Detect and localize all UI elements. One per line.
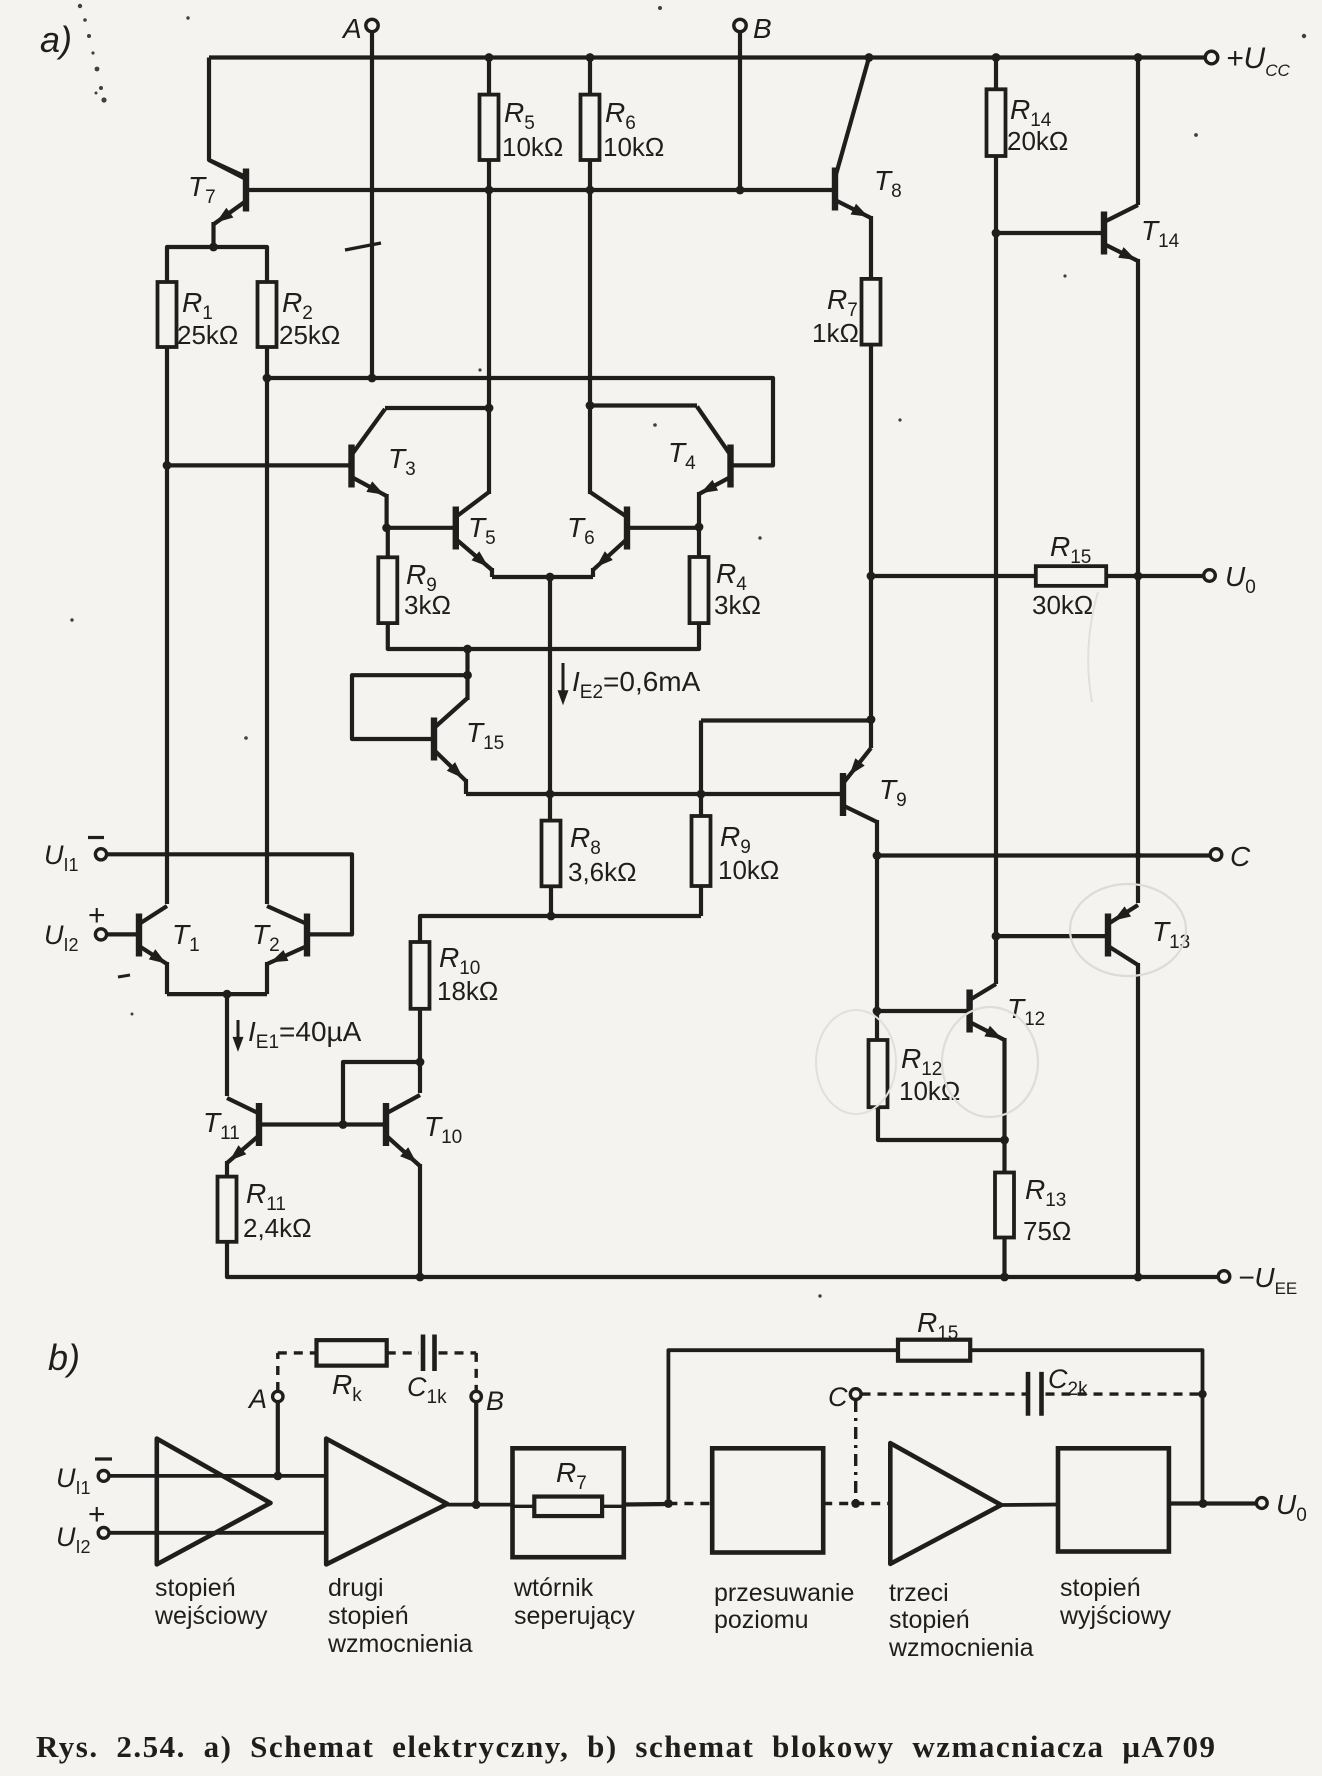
b dash-dot C down bbox=[854, 1400, 857, 1504]
wire node B vertical bbox=[738, 32, 742, 190]
b dashed to Rk bbox=[278, 1351, 317, 1354]
junction T3 collector bbox=[485, 404, 494, 413]
b terminal UI2 bbox=[98, 1527, 109, 1538]
transistor T1 bbox=[139, 906, 167, 964]
resistor R7 bbox=[862, 279, 881, 345]
svg-text:A: A bbox=[247, 1384, 267, 1414]
wire T14 collector up bbox=[1136, 58, 1140, 206]
wire T5 base bbox=[387, 526, 456, 530]
svg-text:B: B bbox=[753, 13, 772, 44]
svg-text:C: C bbox=[828, 1382, 848, 1412]
junction IE1 bbox=[223, 990, 232, 999]
wire T7 emitter down bbox=[211, 222, 215, 247]
resistor R11 bbox=[218, 1177, 237, 1242]
terminal UI1 bbox=[95, 849, 106, 860]
svg-text:wyjściowy: wyjściowy bbox=[1059, 1602, 1172, 1630]
wire T3 emitter down bbox=[385, 494, 389, 528]
svg-text:3kΩ: 3kΩ bbox=[714, 590, 761, 620]
wire T7 base to T8 base bbox=[246, 188, 835, 192]
svg-text:3kΩ: 3kΩ bbox=[404, 590, 451, 620]
terminal C bbox=[1210, 849, 1222, 861]
junction T4 collector bbox=[586, 401, 595, 410]
junction T9 emitter tee bbox=[867, 715, 876, 724]
wire R9b bottom lead bbox=[699, 886, 703, 916]
resistor R4 bbox=[690, 557, 709, 623]
svg-text:1kΩ: 1kΩ bbox=[812, 318, 859, 348]
b junction feedback left bbox=[664, 1499, 673, 1508]
b dashed C2k to right bbox=[1046, 1392, 1203, 1395]
wire R7 bottom column bbox=[869, 345, 873, 748]
junction R8 bottom bus bbox=[547, 912, 556, 921]
wire R13 bottom lead bbox=[1002, 1238, 1006, 1278]
resistor R8 bbox=[542, 821, 561, 887]
b wire amp2 to R7 block bbox=[447, 1503, 512, 1507]
b wire UI2 into amp1 bbox=[109, 1531, 326, 1535]
wire T3 base bbox=[167, 463, 352, 467]
b capacitor C1k bbox=[421, 1335, 426, 1372]
junction T3 base bbox=[163, 461, 172, 470]
b dashed A up bbox=[276, 1353, 279, 1391]
svg-text:stopień: stopień bbox=[1060, 1574, 1141, 1602]
junction R9b bbox=[697, 790, 706, 799]
wire -UEE bottom rail bbox=[227, 1242, 1218, 1277]
transistor T5 bbox=[456, 492, 492, 570]
b terminal U0 bbox=[1256, 1498, 1267, 1509]
b junction A bbox=[273, 1472, 282, 1481]
b dashed down to B bbox=[475, 1353, 478, 1390]
wire T1-T2 common emitter bbox=[167, 992, 267, 996]
wire bottom bus to R10 bbox=[420, 916, 701, 942]
svg-text:stopień: stopień bbox=[328, 1602, 409, 1630]
b terminal B bbox=[471, 1391, 481, 1401]
svg-text:drugi: drugi bbox=[328, 1574, 384, 1602]
svg-text:10kΩ: 10kΩ bbox=[603, 132, 664, 162]
junction T14 base bbox=[992, 229, 1001, 238]
junction T15 base loop bbox=[463, 671, 472, 680]
svg-text:2,4kΩ: 2,4kΩ bbox=[243, 1213, 312, 1243]
wire R9b top column bbox=[699, 721, 703, 817]
junction R12 bottom bbox=[1000, 1136, 1009, 1145]
wire T7 collector to rail bbox=[209, 58, 246, 178]
svg-text:+: + bbox=[88, 899, 106, 932]
svg-text:25kΩ: 25kΩ bbox=[177, 320, 238, 350]
wire T14 base bbox=[996, 231, 1104, 235]
svg-text:trzeci: trzeci bbox=[889, 1579, 949, 1607]
junction T5 base / R9 bbox=[382, 523, 391, 532]
svg-text:25kΩ: 25kΩ bbox=[279, 320, 340, 350]
resistor R5 bbox=[480, 95, 499, 160]
wire R5 bottom column to T5 bbox=[487, 160, 491, 494]
resistor R6 bbox=[581, 95, 600, 160]
b amplifier stage 2 triangle bbox=[326, 1439, 447, 1565]
wire T8 emitter to R7 bbox=[869, 216, 873, 279]
b junction C2k right bbox=[1198, 1390, 1206, 1398]
terminal -UEE bbox=[1218, 1271, 1230, 1283]
junction R5 bbox=[485, 186, 494, 195]
transistor T11 bbox=[227, 1098, 259, 1163]
svg-text:poziomu: poziomu bbox=[714, 1606, 809, 1634]
wire T12 base bbox=[877, 1009, 970, 1013]
b junction output bbox=[1199, 1499, 1208, 1508]
junction rail R14 bbox=[992, 53, 1001, 62]
junction R2 / A wire bbox=[263, 374, 272, 383]
wire T13 base bbox=[996, 934, 1108, 938]
transistor T7 bbox=[209, 160, 246, 224]
junction rail R6 bbox=[586, 53, 595, 62]
b block przesuwanie poziomu bbox=[712, 1448, 823, 1552]
b wire feedback right down bbox=[970, 1350, 1202, 1503]
wire T5-T6 common emitter bbox=[492, 575, 593, 579]
svg-text:seperujący: seperujący bbox=[514, 1602, 635, 1630]
transistor T14 bbox=[1104, 205, 1138, 261]
b amplifier stage 3 triangle bbox=[890, 1443, 1001, 1564]
svg-text:przesuwanie: przesuwanie bbox=[714, 1579, 854, 1607]
b terminal C bbox=[850, 1389, 861, 1400]
junction A line end bbox=[368, 374, 377, 383]
junction IE2 bbox=[546, 573, 555, 582]
stray dash mark near A line bbox=[345, 243, 381, 250]
b junction C below bbox=[851, 1499, 860, 1508]
node R1-R2 tee bbox=[209, 243, 218, 252]
svg-text:10kΩ: 10kΩ bbox=[899, 1076, 960, 1106]
terminal A bbox=[366, 19, 378, 31]
b minus bar bbox=[95, 1457, 112, 1460]
wire R6 bottom column to T6 bbox=[588, 160, 592, 494]
svg-text:a): a) bbox=[40, 19, 72, 60]
transistor T9 bbox=[843, 748, 877, 822]
b dashed block1 to amp3 bbox=[823, 1502, 890, 1505]
wire T2 emitter down bbox=[265, 962, 269, 994]
wire R15 right to U0 bbox=[1106, 574, 1203, 578]
wire R12 bottom to T12 emitter bbox=[878, 1107, 1005, 1140]
b amplifier stage 1 triangle bbox=[157, 1439, 271, 1565]
junction T13 rail bbox=[1134, 1273, 1143, 1282]
junction T10 emitter rail bbox=[416, 1273, 425, 1282]
junction T12 base bbox=[873, 1007, 882, 1016]
b block stopien wyjsciowy bbox=[1058, 1448, 1169, 1551]
wire UI1 to T2 base bbox=[107, 854, 352, 934]
wire R6 top lead bbox=[588, 58, 592, 95]
b block wtornik R7 bbox=[513, 1448, 624, 1557]
wire T3 collector to R5 column bbox=[385, 406, 489, 410]
transistor T8 bbox=[835, 58, 871, 219]
b resistor R15 bbox=[898, 1340, 970, 1361]
label UI1 minus bar bbox=[88, 836, 104, 839]
wire UI2 to T1 base bbox=[107, 932, 139, 936]
junction T6 base / R4 bbox=[695, 523, 704, 532]
b wire feedback up left bbox=[668, 1350, 898, 1503]
wire R12 top lead bbox=[875, 1011, 879, 1040]
wire T15 emitter bus to T9 base bbox=[466, 792, 843, 796]
junction R15 left bbox=[867, 572, 876, 581]
wire R2 bottom column bbox=[265, 347, 269, 904]
stray minus mark bbox=[118, 975, 130, 977]
svg-text:Rys. 2.54. a) Schemat elektryc: Rys. 2.54. a) Schemat elektryczny, b) sc… bbox=[36, 1729, 1216, 1764]
b junction B wire bbox=[472, 1500, 481, 1509]
resistor R13 bbox=[995, 1173, 1014, 1238]
resistor R14 bbox=[987, 89, 1006, 156]
transistor T13 bbox=[1108, 905, 1138, 965]
svg-text:wtórnik: wtórnik bbox=[513, 1574, 594, 1602]
junction T10-T11 base hook bbox=[416, 1058, 425, 1067]
wire T4 collector to R6 column bbox=[590, 403, 697, 407]
wire R14 top lead bbox=[994, 58, 998, 90]
junction R15 right bbox=[1134, 572, 1143, 581]
wire node A vertical bbox=[370, 32, 374, 378]
transistor T4 bbox=[697, 407, 731, 495]
wire R5 top lead bbox=[487, 58, 491, 95]
terminal B bbox=[734, 19, 746, 31]
svg-text:A: A bbox=[341, 13, 362, 44]
b wire R7 in bbox=[513, 1505, 535, 1508]
resistor R12 bbox=[869, 1040, 888, 1107]
b dashed Rk to C1k bbox=[387, 1351, 419, 1354]
b dashed C1k to B bbox=[439, 1351, 477, 1354]
transistor T15 bbox=[434, 698, 468, 781]
arrow IE1 current bbox=[237, 1020, 240, 1042]
b wire A down bbox=[276, 1403, 280, 1476]
terminal +Ucc bbox=[1205, 51, 1218, 64]
wire C rail bbox=[877, 853, 1210, 857]
wire R8 bottom lead bbox=[549, 886, 553, 916]
wire +Ucc top rail bbox=[209, 55, 1205, 59]
wire T11-T10 bases bbox=[259, 1122, 386, 1126]
faint smudges bbox=[1070, 884, 1186, 976]
resistor R15 bbox=[1036, 566, 1106, 586]
wire T5 emitter down bbox=[490, 568, 494, 577]
wire T4 emitter to R4 bbox=[697, 492, 701, 557]
wire T14 emitter column down bbox=[1136, 259, 1140, 903]
svg-text:10kΩ: 10kΩ bbox=[502, 132, 563, 162]
junction R8 bbox=[546, 790, 555, 799]
junction C rail start bbox=[873, 851, 882, 860]
junction T13 base bbox=[992, 932, 1001, 941]
transistor T6 bbox=[590, 492, 627, 570]
svg-text:18kΩ: 18kΩ bbox=[437, 976, 498, 1006]
wire T10 emitter to rail bbox=[418, 1164, 422, 1277]
transistor T10 bbox=[386, 1095, 420, 1166]
resistor R9 10k bbox=[692, 816, 711, 886]
b dashed to block1 bbox=[668, 1502, 712, 1505]
junction R6 bbox=[586, 186, 595, 195]
wire second stage bus to T4 base bbox=[267, 378, 773, 465]
svg-text:stopień: stopień bbox=[889, 1606, 970, 1634]
wire T15 emitter down bbox=[464, 779, 468, 794]
b resistor Rk bbox=[317, 1340, 387, 1366]
svg-text:C: C bbox=[1230, 841, 1251, 872]
b capacitor C2k bbox=[1026, 1372, 1031, 1416]
resistor R9 3k bbox=[378, 557, 397, 623]
junction rail T14 collector bbox=[1134, 53, 1143, 62]
stray scan marks bbox=[78, 4, 82, 8]
wire T6 emitter down bbox=[591, 568, 595, 577]
wire T13 collector down bbox=[1136, 963, 1140, 1277]
junction T15 collector column bbox=[463, 645, 472, 654]
svg-text:wzmocnienia: wzmocnienia bbox=[327, 1630, 473, 1658]
transistor T12 bbox=[970, 984, 1005, 1040]
wire T15 collector column bbox=[465, 649, 469, 700]
junction C rail right column bbox=[1135, 852, 1142, 859]
wire base hook to R10 bbox=[343, 1062, 420, 1125]
wire R1-R2 top tee bbox=[167, 247, 267, 282]
junction rail T8 collector bbox=[865, 53, 874, 62]
wire R15 left bbox=[871, 574, 1036, 578]
wire T11 emitter to R11 bbox=[225, 1161, 229, 1177]
svg-text:20kΩ: 20kΩ bbox=[1007, 126, 1068, 156]
wire R1 bottom / T3 base column bbox=[165, 347, 169, 904]
wire tee to T9 emitter column bbox=[701, 718, 871, 722]
junction R13 rail bbox=[1000, 1273, 1009, 1282]
wire R14 bottom column to T13 base bbox=[994, 156, 998, 936]
wire IE1 vertical to T11 bbox=[225, 994, 229, 1096]
junction base hook bbox=[339, 1120, 348, 1129]
transistor T3 bbox=[352, 409, 387, 496]
b wire UI1 into amp1 bbox=[109, 1474, 326, 1478]
b terminal UI1 bbox=[98, 1471, 109, 1482]
wire R9a-R4 bottom bus bbox=[388, 623, 699, 649]
svg-text:75Ω: 75Ω bbox=[1023, 1216, 1071, 1246]
terminal UI2 bbox=[95, 929, 106, 940]
wire T12 emitter to R13 bbox=[1002, 1038, 1006, 1173]
wire R10 bottom column bbox=[418, 1009, 422, 1093]
resistor R1 bbox=[158, 282, 177, 347]
wire IE2 vertical to T15 emitter bus bbox=[548, 577, 552, 794]
b resistor R7 inner bbox=[534, 1497, 602, 1517]
svg-text:stopień: stopień bbox=[155, 1574, 236, 1602]
b wire amp3 to block2 bbox=[1001, 1503, 1058, 1507]
wire T6 base bbox=[627, 526, 699, 530]
b dashed C to C2k bbox=[862, 1392, 1027, 1395]
wire R9a top lead bbox=[386, 528, 390, 558]
svg-text:B: B bbox=[486, 1386, 504, 1416]
b terminal A bbox=[273, 1391, 283, 1401]
resistor R2 bbox=[258, 282, 277, 347]
svg-text:30kΩ: 30kΩ bbox=[1032, 590, 1093, 620]
b wire B down to output bbox=[474, 1403, 478, 1505]
svg-text:3,6kΩ: 3,6kΩ bbox=[568, 857, 637, 887]
svg-text:10kΩ: 10kΩ bbox=[718, 855, 779, 885]
wire T9 collector column down bbox=[875, 820, 879, 1011]
b wire to U0 bbox=[1169, 1501, 1256, 1505]
junction B bbox=[736, 186, 745, 195]
b wire R7 block out bbox=[624, 1502, 669, 1507]
terminal U0 bbox=[1204, 570, 1216, 582]
resistor R10 bbox=[411, 942, 430, 1009]
svg-text:wejściowy: wejściowy bbox=[154, 1602, 268, 1630]
wire T15 base loop bbox=[352, 675, 468, 739]
wire T1 emitter down bbox=[165, 962, 169, 994]
wire R8 top lead bbox=[548, 794, 552, 821]
arrow IE2 current bbox=[562, 663, 565, 697]
svg-text:wzmocnienia: wzmocnienia bbox=[888, 1634, 1034, 1662]
transistor T2 bbox=[267, 906, 307, 964]
junction rail R5 bbox=[485, 53, 494, 62]
wire T12 collector up bbox=[994, 936, 998, 984]
b wire R7 out bbox=[602, 1505, 624, 1508]
svg-text:b): b) bbox=[48, 1337, 80, 1378]
